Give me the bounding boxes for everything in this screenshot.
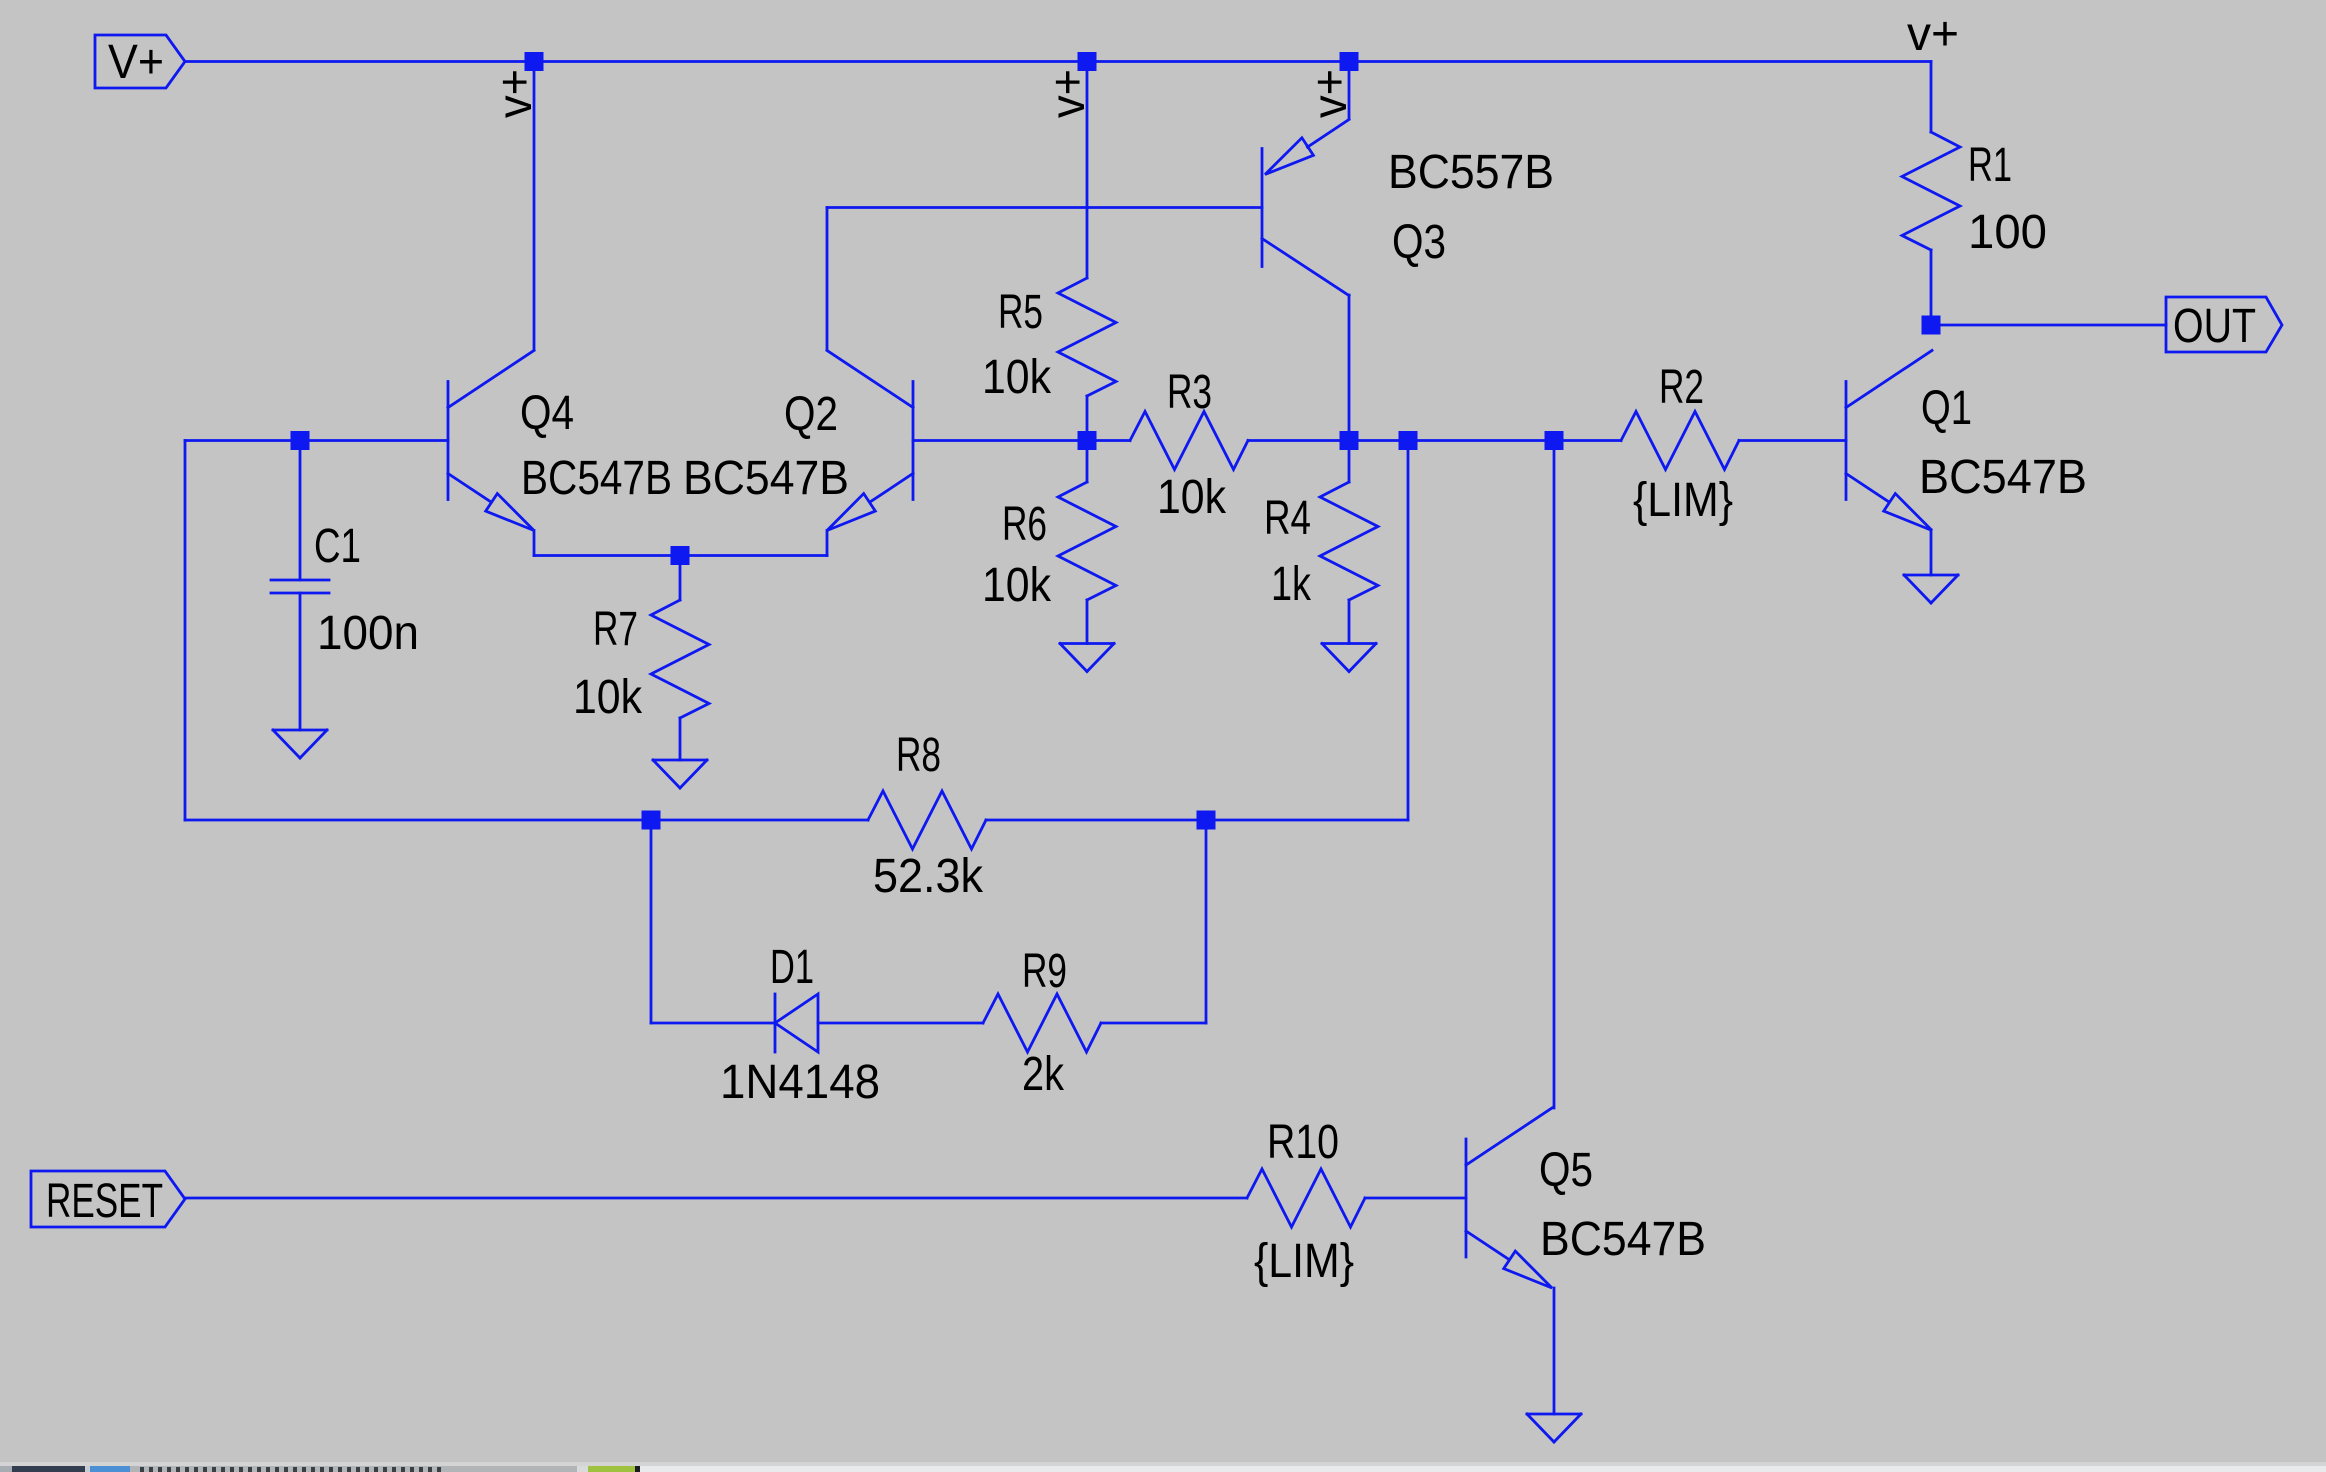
port flag RESET xyxy=(31,1171,185,1227)
svg-text:1k: 1k xyxy=(1271,558,1312,611)
wire R2 to Q1 base xyxy=(1739,439,1846,442)
wire R5 to mid node xyxy=(1086,396,1089,441)
wire top V+ rail xyxy=(185,60,1931,63)
wire Q5 emitter to ground xyxy=(1553,1288,1556,1414)
ground R7 xyxy=(653,759,707,762)
resistor R9 xyxy=(983,994,1101,1052)
junction rail-Q4 xyxy=(525,52,544,71)
svg-text:{LIM}: {LIM} xyxy=(1633,474,1733,527)
transistor Q5 xyxy=(1465,1139,1468,1257)
bottom taskbar strip xyxy=(0,1462,2326,1472)
wire R6 to ground xyxy=(1086,600,1089,644)
resistor R1 xyxy=(1902,132,1960,250)
svg-text:R7: R7 xyxy=(593,603,638,656)
svg-text:RESET: RESET xyxy=(46,1175,163,1228)
resistor R2 xyxy=(1621,412,1739,470)
wire Q4 collector to rail xyxy=(533,62,536,351)
capacitor C1 xyxy=(299,441,302,581)
wire D1 anode to R9 xyxy=(818,1022,983,1025)
wire R1 to OUT node xyxy=(1930,250,1933,325)
wire Q4 emitter stub xyxy=(533,531,536,556)
junction R8 riser node xyxy=(1399,431,1418,450)
wire R10 to Q5 base xyxy=(1365,1197,1466,1200)
ground R4 xyxy=(1322,642,1376,645)
junction R5-R6 node xyxy=(1078,431,1097,450)
wire emitter bus Q4-Q2 xyxy=(534,554,827,557)
wire R9 to riser xyxy=(1101,1022,1206,1025)
svg-text:1N4148: 1N4148 xyxy=(720,1056,880,1109)
svg-text:Q3: Q3 xyxy=(1392,216,1446,269)
resistor R8 xyxy=(868,791,986,849)
svg-text:D1: D1 xyxy=(770,941,814,994)
transistor Q4 xyxy=(447,382,450,500)
svg-text:v+: v+ xyxy=(1304,69,1357,118)
wire R8 node down xyxy=(650,820,653,1023)
wire Q2 base to R3 xyxy=(913,439,1130,442)
ground R6 xyxy=(1060,642,1114,645)
resistor R6 xyxy=(1058,482,1116,600)
junction R8 left xyxy=(642,811,661,830)
svg-text:BC547B: BC547B xyxy=(521,452,672,505)
svg-text:10k: 10k xyxy=(573,671,643,724)
resistor R5 xyxy=(1058,278,1116,396)
svg-text:OUT: OUT xyxy=(2173,300,2256,353)
resistor R7 xyxy=(651,600,709,718)
junction rail-R5 xyxy=(1078,52,1097,71)
wire to D1 cathode xyxy=(651,1022,775,1025)
resistor R3 xyxy=(1130,412,1248,470)
junction OUT node xyxy=(1922,316,1941,335)
junction C1 node xyxy=(291,431,310,450)
svg-text:R10: R10 xyxy=(1267,1116,1339,1169)
svg-text:2k: 2k xyxy=(1022,1048,1065,1101)
svg-text:10k: 10k xyxy=(982,559,1052,612)
wire RESET to R10 xyxy=(185,1197,1247,1200)
wire Q1 emitter to ground xyxy=(1930,530,1933,575)
svg-text:BC557B: BC557B xyxy=(1388,146,1554,199)
wire mid node to R4 xyxy=(1348,441,1351,483)
wire mid node to R8 row riser xyxy=(1407,441,1410,821)
svg-text:R5: R5 xyxy=(998,286,1043,339)
svg-text:v+: v+ xyxy=(1907,8,1959,61)
svg-text:BC547B: BC547B xyxy=(683,452,849,505)
wire R9 riser to R8 node xyxy=(1205,820,1208,1023)
port flag V+ xyxy=(95,35,185,88)
svg-text:V+: V+ xyxy=(108,36,164,89)
svg-text:C1: C1 xyxy=(314,520,361,573)
svg-text:BC547B: BC547B xyxy=(1540,1213,1706,1266)
svg-text:Q5: Q5 xyxy=(1539,1144,1593,1197)
svg-text:R9: R9 xyxy=(1022,945,1067,998)
wire rail to R1 xyxy=(1930,62,1933,133)
svg-text:52.3k: 52.3k xyxy=(873,850,984,903)
svg-text:BC547B: BC547B xyxy=(1919,451,2087,504)
port flag OUT xyxy=(2166,297,2282,352)
transistor Q3 xyxy=(1261,149,1264,267)
transistor Q2 xyxy=(912,382,915,500)
ground Q5 xyxy=(1527,1413,1581,1416)
wire R3 to R2 xyxy=(1248,439,1621,442)
wire Q2 collector riser xyxy=(826,208,829,351)
svg-text:R4: R4 xyxy=(1264,492,1311,545)
ground C1 xyxy=(273,729,327,732)
svg-text:{LIM}: {LIM} xyxy=(1254,1235,1354,1288)
wire left to R8 xyxy=(185,819,868,822)
wire OUT node to flag xyxy=(1931,324,2166,327)
svg-text:Q2: Q2 xyxy=(784,388,838,441)
junction Q5 collector node xyxy=(1545,431,1564,450)
svg-text:R8: R8 xyxy=(896,729,941,782)
junction R8 right xyxy=(1197,811,1216,830)
wire rail to R5 xyxy=(1086,62,1089,279)
wire Q2 collector to Q3 base xyxy=(827,206,1262,209)
svg-text:100n: 100n xyxy=(317,607,419,660)
resistor R10 xyxy=(1247,1169,1365,1227)
wire C1 node to Q4 base xyxy=(185,439,448,442)
svg-text:R6: R6 xyxy=(1002,498,1047,551)
svg-text:10k: 10k xyxy=(982,351,1052,404)
svg-text:v+: v+ xyxy=(1042,69,1095,118)
wire C1 node down left xyxy=(184,441,187,821)
junction emitter bus xyxy=(671,546,690,565)
svg-text:Q1: Q1 xyxy=(1921,382,1972,435)
wire R4 to ground xyxy=(1348,600,1351,644)
wire R7 to ground xyxy=(679,718,682,760)
wire R8 to riser xyxy=(986,819,1408,822)
svg-text:Q4: Q4 xyxy=(520,387,574,440)
ground Q1 xyxy=(1904,574,1958,577)
svg-text:R1: R1 xyxy=(1968,139,2012,192)
transistor Q1 xyxy=(1845,382,1848,500)
svg-text:100: 100 xyxy=(1968,206,2047,259)
wire mid node to R6 xyxy=(1086,441,1089,483)
diode D1 xyxy=(774,994,777,1052)
junction rail-Q3 xyxy=(1340,52,1359,71)
wire mid node to Q5 collector xyxy=(1553,441,1556,1109)
wire bus to R7 xyxy=(679,556,682,601)
wire Q3 collector to mid node xyxy=(1348,295,1351,441)
resistor R4 xyxy=(1320,482,1378,600)
svg-text:R2: R2 xyxy=(1659,361,1704,414)
wire Q2 emitter stub xyxy=(826,531,829,556)
svg-text:R3: R3 xyxy=(1167,366,1212,419)
svg-text:v+: v+ xyxy=(489,69,542,118)
svg-text:10k: 10k xyxy=(1157,471,1227,524)
wire rail to Q3 emitter xyxy=(1348,62,1351,120)
junction R3-R4 node xyxy=(1340,431,1359,450)
